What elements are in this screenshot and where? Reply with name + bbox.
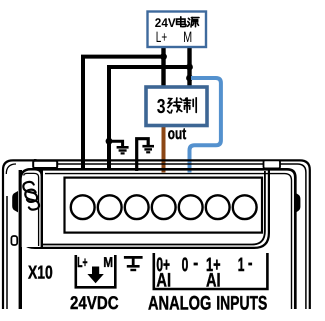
terminal screw 4	[152, 195, 176, 219]
terminal bay bottom edge inner	[24, 171, 265, 245]
earth terminal marking	[124, 257, 143, 270]
wire M vertical from supply to transmitter	[187, 46, 191, 87]
hanzi 源 (yuan)	[188, 18, 199, 27]
torque clamp symbol (section swirl)	[22, 181, 39, 211]
node junction dot on M left drop	[106, 138, 113, 145]
wire M branch horizontal and left drop	[109, 67, 190, 170]
left end-cap panel outer	[21, 169, 42, 247]
ground symbol 2 (module functional earth terminal)	[137, 139, 154, 171]
module case outer outline	[3, 160, 310, 309]
hanzi 制 (zhi)	[184, 98, 197, 113]
svg-text:X10: X10	[28, 261, 53, 282]
svg-text:AI: AI	[206, 269, 221, 291]
right latch block	[264, 160, 281, 168]
svg-text:24VDC: 24VDC	[70, 292, 119, 313]
terminal screw 7	[233, 195, 257, 219]
left seam line	[19, 170, 22, 309]
left hinge block	[34, 159, 37, 163]
module case inner corner arc left	[6, 164, 16, 174]
hanzi 电 (dian)	[177, 17, 186, 27]
svg-text:L+: L+	[77, 255, 87, 271]
svg-text:ANALOG: ANALOG	[148, 292, 211, 314]
ground symbol 1 (supply M earthed)	[109, 141, 129, 153]
terminal screw 6	[206, 195, 230, 219]
terminal screw 2	[98, 195, 122, 219]
terminal block	[65, 178, 263, 233]
svg-text:M: M	[103, 255, 113, 271]
svg-text:0: 0	[182, 255, 189, 276]
3-wire transmitter box (3线制)	[146, 87, 207, 126]
24V supply box	[148, 12, 207, 48]
svg-text:3: 3	[157, 96, 166, 118]
svg-text:1: 1	[238, 255, 245, 276]
terminal bay top edge and right rail inner	[45, 174, 292, 309]
left end-cap panel inner right line	[24, 173, 39, 246]
svg-text:AI: AI	[156, 269, 171, 291]
24VDC terminal group bracket	[76, 255, 116, 287]
node junction dot M lower (to 0- wire)	[186, 75, 193, 82]
svg-text:INPUTS: INPUTS	[216, 292, 267, 314]
wire L+ branch horizontal and left drop	[83, 57, 164, 170]
hanzi 线 (xian)	[168, 98, 182, 113]
wire brown out signal to 0+	[162, 126, 166, 173]
svg-text:M: M	[183, 29, 192, 46]
node junction dot L+	[160, 53, 167, 60]
left side black bump	[12, 191, 18, 212]
terminal bay bottom edge outer	[20, 170, 269, 248]
terminal screw 1	[71, 195, 95, 219]
wire L+ vertical from supply to transmitter	[161, 46, 165, 87]
wire blue 0- signal	[190, 78, 221, 173]
terminal screw 3	[125, 195, 149, 219]
left end-cap right edge riser	[41, 164, 43, 176]
module case inner left line	[6, 196, 8, 309]
svg-text:out: out	[168, 125, 187, 143]
node junction dot M upper	[186, 64, 193, 71]
left small tab	[11, 236, 17, 245]
AI terminal group bracket	[154, 253, 268, 289]
terminal screw 5	[179, 195, 203, 219]
terminal bay top edge and right rail outer	[21, 169, 296, 309]
right side black bump	[296, 193, 301, 213]
module case inner top line and right	[57, 164, 306, 309]
svg-text:L+: L+	[156, 29, 167, 46]
arrow down (supply direction)	[87, 267, 103, 284]
